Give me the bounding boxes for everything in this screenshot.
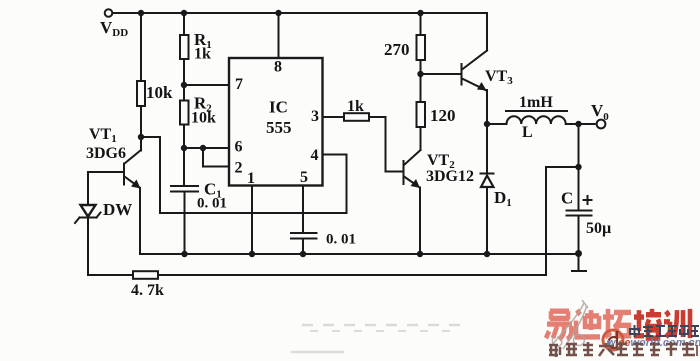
wire output node down to capacitor C xyxy=(578,124,580,211)
transistor VT3 emitter stroke xyxy=(462,79,486,91)
transistor VT2 emitter stroke xyxy=(404,177,419,188)
svg-text:7: 7 xyxy=(235,76,243,93)
resistor 120 xyxy=(417,102,426,127)
resistor 4.7k xyxy=(133,271,158,279)
wire VT2 emitter to bottom rail xyxy=(419,188,421,255)
wire pin 3 out xyxy=(323,116,345,118)
wire top VDD rail xyxy=(113,12,488,14)
wire rail to 270 xyxy=(420,13,422,35)
node pin2/6 tie junction xyxy=(200,145,206,151)
svg-text:DW: DW xyxy=(103,200,132,219)
wire pin 5 to cap xyxy=(302,186,304,234)
svg-text:1mH: 1mH xyxy=(519,94,553,111)
inductor L 1mH xyxy=(507,116,566,124)
transistor VT1 emitter arrowhead xyxy=(131,180,141,189)
svg-text:270: 270 xyxy=(384,40,410,59)
svg-text:V0: V0 xyxy=(591,101,609,123)
svg-text:VT1: VT1 xyxy=(89,126,117,145)
node VT1 collector junction xyxy=(138,134,144,140)
svg-text:1k: 1k xyxy=(347,98,364,115)
wire cap to rail xyxy=(302,239,304,255)
wire pin 8 from rail xyxy=(278,13,280,58)
wire node to inductor xyxy=(487,123,506,125)
svg-text:50µ: 50µ xyxy=(586,220,611,237)
wire rail to R1 xyxy=(183,13,185,35)
op-amp U1 IC 555 box xyxy=(229,58,323,186)
resistor 270 xyxy=(417,35,426,60)
node pin6 junction xyxy=(181,145,187,151)
terminal Vo xyxy=(597,120,606,129)
transistor Q VT1 base bar xyxy=(123,164,125,185)
node junction top rail x278 xyxy=(275,10,281,16)
wire pin 2 xyxy=(203,148,229,167)
svg-text:L: L xyxy=(522,124,533,141)
transistor VT2 emitter arrowhead xyxy=(411,179,421,188)
transistor VT2 collector stroke xyxy=(404,150,421,165)
node junction top rail x420 xyxy=(417,10,423,16)
node feedback to cap C junction xyxy=(575,164,581,170)
wire feedback line to output node xyxy=(158,167,579,275)
svg-text:555: 555 xyxy=(266,118,292,137)
watermark bottom row tail xyxy=(696,345,698,356)
svg-text:10k: 10k xyxy=(146,83,173,102)
node bottom rail x420 xyxy=(417,251,423,257)
node output junction xyxy=(575,121,581,127)
wire VT1 emitter down to bottom rail xyxy=(139,188,141,254)
wire VT3 emitter to node xyxy=(486,90,488,124)
capacitor C plates xyxy=(567,211,592,216)
wire 270 to 120 junction xyxy=(420,60,422,102)
watermark bottom red row xyxy=(549,342,695,357)
svg-text:1k: 1k xyxy=(194,46,211,63)
wire inductor to Vo xyxy=(566,123,595,125)
wire bottom rail xyxy=(140,253,579,255)
resistor R1 xyxy=(180,35,189,59)
transistor Q VT2 base bar xyxy=(403,161,405,184)
watermark big red char 2 Di xyxy=(575,310,600,337)
svg-text:C: C xyxy=(561,189,573,208)
wire R2 down to C1 xyxy=(183,125,185,187)
node cap rail junction xyxy=(575,250,582,257)
svg-text:0. 01: 0. 01 xyxy=(326,232,356,248)
watermark big red char 1 Yi xyxy=(546,311,572,339)
resistor 1k (pin3) xyxy=(344,113,369,121)
svg-text:VDD: VDD xyxy=(100,18,128,39)
wire pin 6 xyxy=(184,147,229,149)
wire reset line from VT1 collector to pin 4 xyxy=(141,137,347,213)
wire C1 to bottom rail xyxy=(184,192,186,255)
node junction top rail x184 xyxy=(181,10,187,16)
node junction top rail x141 xyxy=(138,10,144,16)
wire VT1 base to zener xyxy=(88,172,124,205)
svg-text:1: 1 xyxy=(247,170,255,187)
watermark pen sketch xyxy=(552,300,588,349)
svg-text:10k: 10k xyxy=(191,110,216,127)
node C1 bottom rail junction xyxy=(181,251,187,257)
wire R1 to R2 xyxy=(183,59,185,101)
ground xyxy=(572,270,586,272)
svg-text:IC: IC xyxy=(269,98,288,117)
svg-text:6: 6 xyxy=(235,139,243,156)
svg-text:4: 4 xyxy=(311,147,319,164)
wire zener to feedback line xyxy=(88,218,133,275)
svg-text:8: 8 xyxy=(274,59,282,76)
svg-text:4. 7k: 4. 7k xyxy=(131,282,164,299)
node bottom rail x487 xyxy=(484,251,490,257)
diode D1 xyxy=(481,124,494,254)
wire 10k to VT1 collector xyxy=(140,106,142,151)
transistor VT1 emitter stroke xyxy=(125,177,140,188)
label plus polarity xyxy=(584,196,592,204)
transistor VT3 emitter arrowhead xyxy=(477,82,487,91)
transistor VT3 collector stroke xyxy=(462,51,487,70)
wire cap C to ground xyxy=(578,216,580,271)
svg-text:D1: D1 xyxy=(494,188,512,209)
svg-text:3DG12: 3DG12 xyxy=(426,168,474,185)
node pin7 junction xyxy=(181,82,187,88)
capacitor C1 xyxy=(171,186,198,192)
svg-text:VT3: VT3 xyxy=(485,68,513,87)
wire pin 1 to rail xyxy=(251,186,253,255)
wire VT3 collector to rail xyxy=(486,13,488,51)
svg-text:120: 120 xyxy=(430,106,456,125)
svg-text:2: 2 xyxy=(235,160,243,177)
node bottom rail x250 xyxy=(249,251,255,257)
transistor Q VT3 base bar xyxy=(461,64,463,85)
resistor 10k (left) xyxy=(137,81,145,106)
label 1mH underline xyxy=(506,110,567,112)
terminal VDD xyxy=(105,9,113,17)
wire VT2 collector to 120 xyxy=(420,127,422,150)
scan smudge top xyxy=(291,325,470,352)
wire junction to VT3 base xyxy=(421,73,461,75)
wire pin 7 xyxy=(184,84,229,86)
node VT3 base junction xyxy=(417,71,423,77)
watermark logo ring xyxy=(603,330,623,350)
watermark navy overlay text xyxy=(629,325,699,337)
node switch node junction xyxy=(484,121,490,127)
watermark big red char 5 Xun xyxy=(664,309,690,338)
svg-text:0. 01: 0. 01 xyxy=(197,196,227,212)
zener diode DW xyxy=(75,205,101,223)
wire from rail to resistor 10k xyxy=(140,13,142,81)
node bottom rail x303 xyxy=(300,251,306,257)
svg-text:5: 5 xyxy=(300,169,308,186)
transistor VT1 collector stroke xyxy=(125,150,142,164)
capacitor 0.01 (pin5) xyxy=(291,233,317,239)
svg-text:3: 3 xyxy=(311,108,319,125)
watermark big red char 4 Pei xyxy=(634,309,661,338)
svg-text:3DG6: 3DG6 xyxy=(86,145,126,162)
watermark big red char 3 Tuo xyxy=(603,309,631,337)
resistor R2 xyxy=(180,101,189,125)
wire 1k to VT2 base xyxy=(369,117,402,172)
